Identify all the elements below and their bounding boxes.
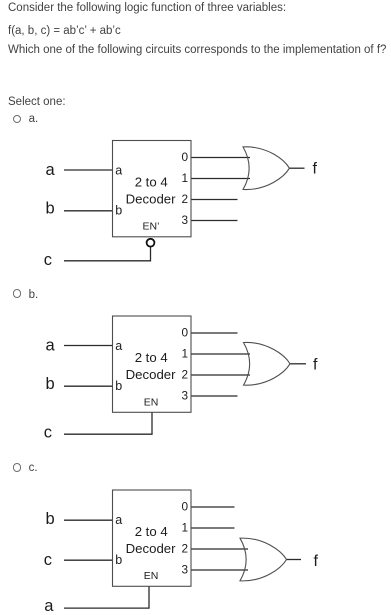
svg-text:3: 3 <box>181 562 188 576</box>
svg-text:a: a <box>115 339 122 353</box>
svg-text:a: a <box>46 337 56 355</box>
svg-text:2: 2 <box>181 541 188 555</box>
svg-text:a: a <box>115 513 122 527</box>
svg-text:b: b <box>46 375 55 393</box>
svg-text:EN: EN <box>144 570 159 582</box>
svg-text:f: f <box>314 553 319 570</box>
svg-text:1: 1 <box>181 171 188 185</box>
svg-text:1: 1 <box>181 346 188 360</box>
svg-text:a: a <box>44 597 54 615</box>
svg-text:2: 2 <box>181 192 188 206</box>
svg-text:a: a <box>46 161 56 179</box>
svg-text:b: b <box>46 199 55 217</box>
svg-text:3: 3 <box>181 388 188 402</box>
svg-text:0: 0 <box>181 499 188 513</box>
svg-text:c: c <box>44 424 52 442</box>
svg-text:b: b <box>115 379 122 393</box>
svg-text:a: a <box>115 163 122 177</box>
svg-text:b: b <box>115 203 122 217</box>
svg-text:0: 0 <box>181 325 188 339</box>
svg-text:Decoder: Decoder <box>126 367 176 382</box>
svg-text:Decoder: Decoder <box>126 541 176 556</box>
svg-text:c: c <box>44 251 52 269</box>
svg-text:b: b <box>46 510 55 528</box>
svg-text:2 to 4: 2 to 4 <box>135 524 168 539</box>
svg-text:f: f <box>313 161 318 178</box>
svg-text:0: 0 <box>181 150 188 164</box>
svg-text:2: 2 <box>181 367 188 381</box>
svg-text:2 to 4: 2 to 4 <box>135 350 168 365</box>
svg-text:f: f <box>313 356 318 373</box>
svg-text:3: 3 <box>181 213 188 227</box>
svg-text:b: b <box>115 553 122 567</box>
svg-text:EN: EN <box>144 397 159 409</box>
svg-text:c: c <box>44 551 52 569</box>
svg-text:EN’: EN’ <box>143 220 160 232</box>
svg-text:1: 1 <box>181 520 188 534</box>
svg-text:2 to 4: 2 to 4 <box>135 174 168 189</box>
svg-text:Decoder: Decoder <box>126 192 176 207</box>
